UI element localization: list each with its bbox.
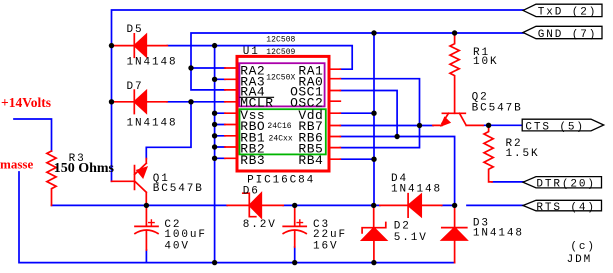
svg-text:PIC16C84: PIC16C84 [247, 175, 315, 187]
resistor R3 [47, 151, 56, 205]
diode D3 [442, 205, 467, 262]
connector TxD (2) [523, 4, 602, 16]
svg-text:5.1V: 5.1V [394, 232, 428, 244]
svg-text:1N4148: 1N4148 [127, 57, 178, 69]
wire MCLR net to Q1 collector [146, 102, 225, 159]
zener diode D2 [362, 205, 386, 262]
svg-text:1.5K: 1.5K [506, 148, 540, 160]
connector CTS (5) [522, 119, 604, 131]
svg-text:24C16: 24C16 [267, 122, 291, 131]
resistor R1 [450, 33, 459, 113]
svg-text:+14Volts: +14Volts [1, 95, 51, 110]
svg-text:RB4: RB4 [298, 153, 323, 168]
IC left pin stubs [225, 68, 236, 158]
svg-text:1N4148: 1N4148 [391, 184, 442, 196]
svg-text:GND (7): GND (7) [538, 29, 598, 41]
svg-text:RTS (4): RTS (4) [536, 202, 596, 214]
svg-text:24Cxx: 24Cxx [269, 134, 293, 143]
transistor Q1 BC547B [112, 159, 148, 206]
svg-text:12C508: 12C508 [266, 35, 295, 44]
wire Vdd-RB4 GND vertical [340, 33, 374, 205]
svg-text:150 Ohms: 150 Ohms [54, 161, 115, 176]
svg-text:(c): (c) [570, 241, 596, 253]
svg-text:10K: 10K [473, 56, 499, 68]
connector RTS (4) [523, 200, 602, 211]
svg-text:12C50X: 12C50X [266, 73, 295, 82]
svg-text:12C509: 12C509 [266, 48, 295, 57]
wire masse ground rail [19, 172, 455, 263]
pin MCLR overline [240, 96, 274, 98]
resistor R2 [484, 125, 493, 182]
capacitor C3 [283, 205, 306, 247]
diode D4 [380, 194, 442, 217]
svg-text:BC547B: BC547B [472, 103, 523, 115]
svg-text:masse: masse [0, 156, 33, 171]
wire C2 bottom [145, 250, 147, 263]
wire RTS [442, 204, 523, 206]
svg-text:DTR(20): DTR(20) [536, 179, 596, 191]
IC right pin stubs [331, 69, 341, 159]
svg-text:40V: 40V [164, 240, 190, 252]
wire DTR [492, 181, 523, 183]
svg-text:1N4148: 1N4148 [127, 117, 178, 129]
svg-text:100uF: 100uF [164, 229, 207, 241]
svg-text:D6: D6 [243, 185, 260, 197]
wire +14Volts input [14, 119, 52, 151]
zener diode D6 [227, 193, 283, 217]
wire RA0-RB7-RB5 net [340, 79, 433, 148]
diode D5 [112, 34, 168, 57]
wire top rail TxD net [112, 10, 524, 181]
connector GND (7) [523, 26, 602, 38]
wire OSC1-RB6 net to D4 node [340, 91, 454, 206]
svg-text:U1: U1 [243, 46, 260, 58]
svg-text:BC547B: BC547B [153, 183, 204, 195]
svg-text:D2: D2 [394, 221, 411, 233]
capacitor C2 [135, 205, 158, 250]
svg-text:D7: D7 [127, 81, 144, 93]
wire C3 bottom [294, 247, 296, 263]
svg-text:8.2V: 8.2V [243, 219, 277, 231]
svg-text:22uF: 22uF [313, 229, 347, 241]
connector DTR (20) [523, 177, 602, 188]
svg-text:16V: 16V [313, 240, 339, 252]
svg-text:D5: D5 [127, 24, 144, 36]
svg-text:CTS (5): CTS (5) [525, 122, 585, 134]
IC magenta box 12C50X section [239, 63, 324, 106]
wire Vss vertical bus [215, 46, 225, 263]
svg-text:Q2: Q2 [472, 91, 489, 103]
wire GND rail to RA2/RA4 [191, 33, 523, 90]
diode D7 [112, 90, 168, 113]
svg-text:1N4148: 1N4148 [473, 228, 524, 240]
wire D5 net to RA1 [167, 46, 352, 70]
wire Vpp node [52, 204, 381, 206]
wire CTS [483, 124, 522, 126]
svg-text:JDM: JDM [567, 254, 593, 266]
svg-text:RB3: RB3 [240, 153, 265, 168]
transistor Q2 BC547B [433, 113, 483, 126]
IC U1 red box [237, 56, 329, 171]
IC green box 24Cxx section [240, 109, 326, 154]
svg-text:TxD (2): TxD (2) [538, 7, 598, 19]
